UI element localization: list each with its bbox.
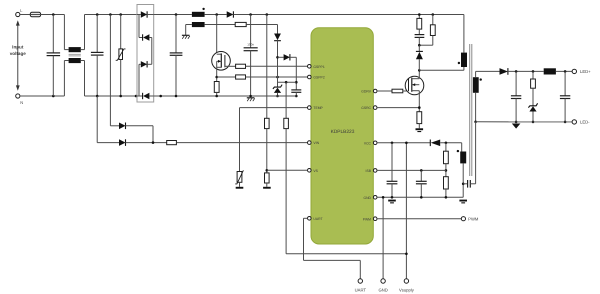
node C2 bottom <box>96 95 99 98</box>
diode D12 (VCC rectifier) <box>430 140 461 147</box>
clamp diode D10 <box>416 45 423 70</box>
inductor L2 winding a <box>192 12 205 17</box>
terminal L <box>16 12 20 16</box>
capacitor C3 (bus cap) <box>170 15 183 97</box>
node C3b bottom <box>249 95 252 98</box>
common-mode choke L1 <box>64 15 84 97</box>
node sense OR <box>152 141 155 144</box>
wire L3 to LED+ <box>556 70 572 72</box>
svg-text:PWM: PWM <box>468 217 479 222</box>
terminal Vsupply <box>399 143 415 293</box>
resistor R14 (ISB lower) <box>444 177 449 198</box>
wire AC sense tap 1 down <box>96 96 98 143</box>
polarity dot T1 primary <box>458 62 460 64</box>
wire clamp node row <box>278 81 297 83</box>
node output zener branch <box>532 70 535 73</box>
inductor L2 winding b <box>186 22 205 35</box>
wire secondary to output diode <box>476 70 500 72</box>
capacitor C3b (second bus cap) <box>244 15 258 97</box>
node VCC Vsupply <box>405 142 408 145</box>
svg-text:GND: GND <box>363 196 371 200</box>
pin VIN <box>308 141 320 145</box>
wire VCC row <box>377 142 430 144</box>
node C3b top <box>249 13 252 16</box>
bridge diode D1 <box>137 11 154 17</box>
SECTION: bridge <box>137 5 154 103</box>
svg-text:UART: UART <box>313 217 322 221</box>
node D6 bottom <box>276 56 279 59</box>
resistor R7 (VIN series) <box>167 141 177 145</box>
svg-text:TEMP: TEMP <box>313 106 323 110</box>
wire source row to R3 <box>217 76 236 78</box>
node bridge AC bottom <box>135 95 138 98</box>
snubber capacitor Cs <box>415 35 425 46</box>
SECTION: output <box>476 68 592 129</box>
terminal LED- <box>572 120 590 125</box>
svg-text:Input: Input <box>12 45 24 50</box>
svg-text:LED-: LED- <box>580 120 590 125</box>
wire DC+ rail inductor to drain node <box>205 14 227 16</box>
capacitor C5 (ISB) <box>416 170 427 197</box>
svg-text:VIN: VIN <box>313 141 319 145</box>
svg-text:GSPP1: GSPP1 <box>313 65 324 69</box>
node Vsupply divider top <box>285 81 288 84</box>
svg-text:Vsupply: Vsupply <box>399 288 415 293</box>
ground bar C4 <box>388 200 396 204</box>
snubber resistor R12 <box>419 15 435 46</box>
node C7 bottom <box>564 121 567 124</box>
wire PWM row <box>377 218 461 220</box>
ground arrow secondary <box>512 124 521 129</box>
wire VS row <box>267 169 308 171</box>
node C4 bottom <box>391 196 394 199</box>
bridge capacitor Cy <box>463 122 475 188</box>
node GND terminal tap <box>382 196 385 199</box>
svg-text:GND: GND <box>378 288 387 293</box>
SECTION: ic <box>267 28 415 293</box>
node Q1 source <box>215 76 218 79</box>
diode D6 (startup, vertical) <box>274 25 281 78</box>
node startup row2 <box>276 76 279 79</box>
terminal UART <box>355 279 367 293</box>
node Vsupply rail <box>405 253 408 256</box>
transformer T1 secondary <box>473 71 479 121</box>
wire GSRC row <box>377 107 419 109</box>
node R14 bottom <box>445 196 448 199</box>
pin GDRV <box>361 89 377 93</box>
pin GND <box>363 196 377 200</box>
wire GND row <box>377 196 463 198</box>
node secondary return <box>474 121 477 124</box>
node drain tap <box>215 13 218 16</box>
svg-text:KDPLB223: KDPLB223 <box>331 129 355 135</box>
capacitor C1 (X-cap across line) <box>47 15 61 97</box>
wire fuse to choke <box>41 14 65 16</box>
wire L to fuse <box>20 14 30 16</box>
SECTION: lowleft <box>97 96 307 189</box>
node bus cap top <box>175 13 178 16</box>
bridge wire leg left upper <box>138 15 140 38</box>
node C3 bottom <box>175 95 178 98</box>
node Q2 drain <box>418 69 421 72</box>
pin VS <box>308 169 319 173</box>
wire R3 to pin GSPP2 <box>246 76 308 78</box>
svg-text:GSRC: GSRC <box>361 106 371 110</box>
node top sense tap <box>109 13 112 16</box>
resistor R9 (gate Q2) <box>392 89 403 93</box>
wire Vsupply divider column <box>284 82 407 254</box>
ground bar aux <box>459 200 467 204</box>
SECTION: input <box>10 8 138 126</box>
ground bar NTC <box>236 187 244 189</box>
pin GSRC <box>361 106 377 110</box>
bridge rectifier box B1 <box>137 5 154 103</box>
wire bottom rail choke to bridge <box>85 95 138 97</box>
resistor R15 (zener series) <box>531 71 536 105</box>
wire UART exit <box>304 218 361 278</box>
node clamp row left <box>295 81 298 84</box>
node aux return <box>462 183 465 186</box>
resistor R2 (Q1 source sense) <box>214 82 219 97</box>
wire primary gnd rail <box>154 95 297 97</box>
node ISB tap <box>445 169 448 172</box>
bridge diode D2 <box>139 34 152 40</box>
node VS <box>266 169 269 172</box>
wire top rail choke to bridge <box>85 14 138 16</box>
SECTION: right <box>377 13 482 221</box>
node ISB cap <box>420 169 423 172</box>
IC U1 body <box>311 28 373 244</box>
svg-text:N: N <box>20 100 23 105</box>
node divider top <box>266 13 269 16</box>
bridge wire leg right middle <box>151 38 153 65</box>
polarity dot L2a <box>202 8 204 10</box>
node output cap2 <box>564 70 567 73</box>
node snubber rail right <box>432 13 435 16</box>
terminal GND <box>378 197 387 292</box>
wire L2b to resistor row <box>205 24 236 26</box>
svg-text:VS: VS <box>313 169 318 173</box>
node output cap1 <box>515 70 518 73</box>
resistor R13 (ISB upper) <box>444 143 449 177</box>
node rail after bridge <box>159 95 162 98</box>
bridge diode D3 <box>139 61 152 67</box>
wire VS divider column upper <box>265 15 270 173</box>
node C6 bottom <box>515 121 518 124</box>
transformer T1 core <box>470 44 472 176</box>
svg-text:GDRV: GDRV <box>361 90 371 94</box>
node N-cap <box>52 95 55 98</box>
node snubber rail left <box>418 13 421 16</box>
ground bar Q2 source <box>416 128 424 132</box>
terminal LED+ <box>572 69 591 74</box>
snubber resistor R11 <box>417 15 422 35</box>
svg-text:100n: 100n <box>247 43 254 47</box>
node clamp <box>418 44 421 47</box>
resistor R1 (gate row to GSPP1) <box>236 64 246 68</box>
svg-text:voltage: voltage <box>10 51 27 56</box>
ground bar VS <box>263 187 271 189</box>
node C5 bottom <box>420 196 423 199</box>
pin ISB <box>366 169 377 173</box>
wire ISB row <box>377 169 446 171</box>
node R2 bottom <box>215 95 218 98</box>
diode D11 (output rectifier) <box>500 68 544 75</box>
svg-text:GSPP2: GSPP2 <box>313 76 324 80</box>
resistor R4 <box>235 22 246 26</box>
pin UART <box>308 217 323 221</box>
thermistor NTC1 <box>235 108 243 187</box>
ground under L2b <box>182 35 190 39</box>
pin GSPP2 <box>308 75 325 79</box>
svg-text:LED+: LED+ <box>580 69 591 74</box>
node Q2 source <box>418 106 421 109</box>
pin GSPP1 <box>308 65 325 69</box>
pin VCC <box>364 141 377 145</box>
node L-cap <box>52 13 55 16</box>
terminal N <box>16 94 20 98</box>
diode D7 (horizontal) <box>278 54 297 90</box>
polarity dot T1 secondary <box>480 78 482 80</box>
capacitor C2 (X-cap 2) <box>91 15 104 97</box>
capacitor C4 (VCC) <box>387 143 398 198</box>
wire DC+ rail to transformer corner <box>233 14 464 16</box>
fuse F1 <box>30 12 40 17</box>
node VCC cap <box>391 142 394 145</box>
polarity dot T1 aux <box>457 150 459 152</box>
terminal PWM <box>461 217 479 222</box>
wire N rail <box>20 95 65 97</box>
mosfet Q2 <box>405 70 424 111</box>
node varistor bottom <box>119 95 122 98</box>
bridge diode D4 <box>137 93 154 99</box>
resistor R3 (source row to GSPP2) <box>236 75 246 79</box>
input voltage arrow <box>10 20 27 91</box>
wire sense tap column <box>109 15 111 126</box>
transformer T1 aux <box>460 143 466 198</box>
SECTION: bus <box>154 8 464 254</box>
resistor R6 (VS to gnd) <box>265 173 270 187</box>
svg-text:PWM: PWM <box>363 217 371 221</box>
pin TEMP <box>308 106 324 110</box>
ground primary (hatched) <box>247 98 255 101</box>
svg-text:UART: UART <box>355 288 367 293</box>
diode D9 (sense lower) <box>97 139 167 146</box>
inductor L3 (output filter) <box>544 68 556 74</box>
pin PWM <box>363 217 377 221</box>
bridge wire leg left lower <box>138 64 140 96</box>
svg-text:VCC: VCC <box>364 141 372 145</box>
wire R1 to pin GSPP1 <box>246 65 308 67</box>
transformer T1 primary <box>461 15 467 71</box>
mosfet Q1 <box>212 15 236 82</box>
resistor R10 (Q2 source) <box>417 112 422 129</box>
capacitor Cz (clamp cap) <box>291 90 301 96</box>
node zener bottom <box>276 95 279 98</box>
node Cz bottom <box>295 95 298 98</box>
zener Z1 <box>273 77 282 96</box>
wire GDRV to gate resistor <box>377 90 393 92</box>
diode D8 (sense upper) <box>110 123 153 143</box>
varistor RV1 <box>116 15 126 97</box>
wire DC+ rail bridge to inductor <box>154 14 192 16</box>
node top X2-cap <box>96 13 99 16</box>
diode D5 (rail) <box>227 11 234 17</box>
svg-text:ISB: ISB <box>366 169 372 173</box>
node Z2 bottom <box>532 121 535 124</box>
wire TEMP row <box>240 107 308 109</box>
wire LED- rail <box>476 121 572 123</box>
capacitor C6 <box>511 71 521 122</box>
wire R4 to startup diode column <box>246 24 277 26</box>
node VCC-ISB chain top <box>445 142 448 145</box>
wire R7 to VIN pin <box>176 142 307 144</box>
node top varistor <box>119 13 122 16</box>
wire drain row to primary <box>419 69 464 71</box>
wire R9 to Q2 gate <box>403 90 409 92</box>
zener Z2 <box>528 103 537 122</box>
capacitor C7 <box>560 71 570 122</box>
